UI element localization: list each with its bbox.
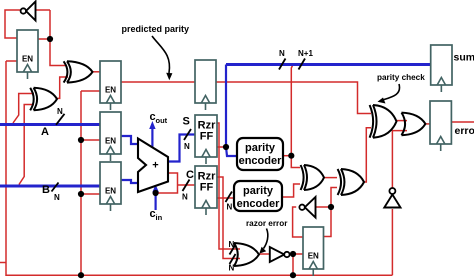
svg-text:N: N: [182, 193, 188, 202]
svg-text:N: N: [279, 49, 285, 58]
svg-text:razor error: razor error: [246, 219, 288, 228]
svg-text:parity check: parity check: [377, 73, 425, 82]
svg-text:N: N: [229, 240, 235, 249]
svg-text:N+1: N+1: [298, 49, 313, 58]
svg-text:N: N: [54, 193, 60, 202]
svg-text:out: out: [156, 116, 168, 125]
svg-text:EN: EN: [308, 252, 319, 261]
svg-text:B: B: [42, 184, 50, 196]
svg-text:in: in: [156, 213, 163, 222]
svg-text:FF: FF: [200, 182, 214, 194]
svg-text:sum: sum: [454, 52, 474, 64]
svg-text:FF: FF: [200, 131, 214, 143]
svg-text:encoder: encoder: [239, 155, 283, 167]
svg-text:N: N: [229, 264, 235, 273]
svg-text:EN: EN: [105, 86, 116, 95]
svg-text:EN: EN: [105, 137, 116, 146]
svg-text:parity: parity: [243, 185, 274, 197]
svg-text:+: +: [152, 160, 158, 172]
svg-text:N: N: [57, 107, 63, 116]
svg-text:error: error: [455, 125, 474, 137]
svg-text:EN: EN: [22, 55, 33, 64]
svg-text:encoder: encoder: [237, 198, 281, 210]
svg-text:S: S: [183, 116, 190, 128]
svg-text:N: N: [184, 142, 190, 151]
svg-text:C: C: [186, 169, 194, 181]
svg-text:parity: parity: [245, 142, 276, 154]
svg-text:A: A: [41, 126, 49, 138]
svg-text:EN: EN: [105, 187, 116, 196]
svg-text:predicted parity: predicted parity: [122, 24, 190, 34]
svg-text:N: N: [227, 203, 233, 212]
